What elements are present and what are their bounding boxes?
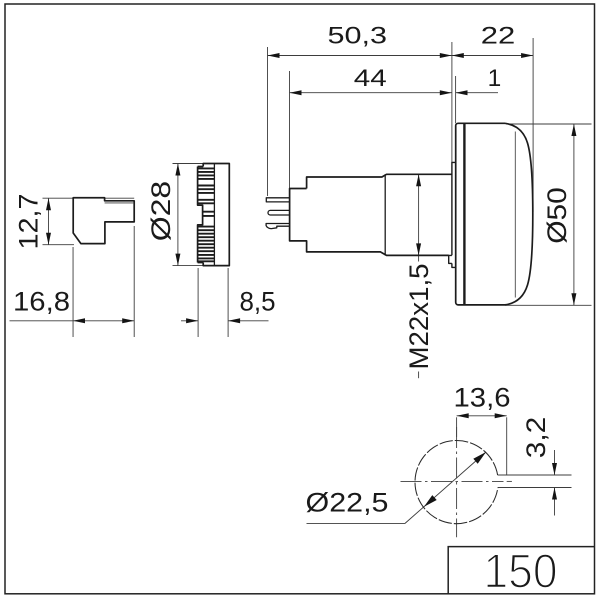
svg-text:1: 1: [488, 65, 502, 92]
svg-text:50,3: 50,3: [328, 22, 388, 49]
svg-text:Ø50: Ø50: [542, 187, 572, 244]
svg-text:16,8: 16,8: [13, 287, 70, 317]
svg-text:3,2: 3,2: [521, 417, 551, 459]
svg-text:Ø28: Ø28: [146, 181, 176, 242]
svg-text:13,6: 13,6: [454, 382, 511, 412]
svg-text:Ø22,5: Ø22,5: [306, 488, 389, 518]
svg-text:44: 44: [354, 65, 387, 92]
svg-text:22: 22: [481, 22, 516, 49]
svg-text:M22x1,5: M22x1,5: [404, 264, 434, 370]
svg-text:8,5: 8,5: [240, 287, 276, 317]
svg-text:150: 150: [484, 545, 558, 598]
svg-text:12,7: 12,7: [14, 194, 44, 250]
